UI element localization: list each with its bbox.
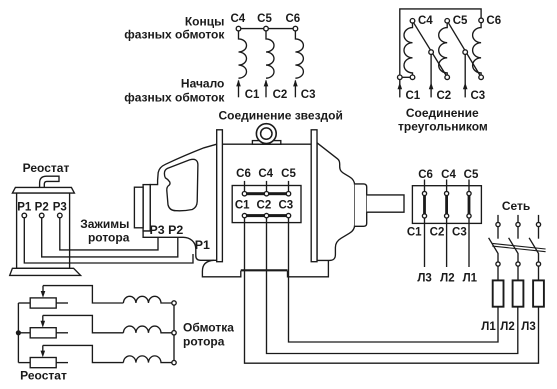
svg-text:фазных обмоток: фазных обмоток: [124, 28, 225, 42]
svg-text:С4: С4: [230, 13, 245, 25]
svg-text:С4: С4: [418, 15, 433, 27]
svg-text:С2: С2: [437, 90, 452, 102]
svg-text:С1: С1: [406, 90, 421, 102]
svg-text:Р1: Р1: [195, 238, 210, 252]
svg-text:С1: С1: [245, 89, 260, 101]
svg-text:Р2: Р2: [35, 202, 49, 214]
svg-text:С3: С3: [452, 227, 467, 239]
svg-text:С4: С4: [258, 168, 273, 180]
svg-text:С1: С1: [407, 227, 422, 239]
svg-text:Реостат: Реостат: [23, 161, 70, 175]
svg-text:Начало: Начало: [181, 77, 224, 91]
svg-text:С5: С5: [453, 15, 468, 27]
svg-text:С5: С5: [464, 169, 479, 181]
svg-text:С3: С3: [278, 200, 293, 212]
svg-text:С6: С6: [285, 13, 300, 25]
svg-text:С2: С2: [273, 89, 288, 101]
svg-text:Л2: Л2: [500, 321, 514, 333]
svg-text:Л1: Л1: [481, 321, 496, 333]
svg-text:Обмотка: Обмотка: [183, 321, 234, 335]
svg-text:Зажимы: Зажимы: [80, 217, 129, 231]
svg-text:Р1: Р1: [17, 202, 32, 214]
svg-text:С1: С1: [235, 200, 250, 212]
svg-text:С3: С3: [471, 90, 486, 102]
svg-text:С6: С6: [236, 168, 251, 180]
svg-text:Л2: Л2: [440, 272, 454, 284]
svg-text:С3: С3: [301, 89, 316, 101]
svg-text:ротора: ротора: [183, 335, 225, 349]
svg-text:Л3: Л3: [521, 321, 535, 333]
svg-text:Л3: Л3: [417, 272, 431, 284]
svg-text:С2: С2: [430, 227, 445, 239]
svg-text:С2: С2: [257, 200, 272, 212]
svg-text:Соединение: Соединение: [406, 106, 479, 120]
svg-text:С4: С4: [441, 169, 456, 181]
svg-text:Концы: Концы: [185, 14, 225, 28]
svg-text:С6: С6: [418, 169, 433, 181]
svg-text:фазных обмоток: фазных обмоток: [124, 91, 225, 105]
svg-text:треугольником: треугольником: [398, 120, 488, 134]
svg-text:Л1: Л1: [463, 272, 478, 284]
svg-text:ротора: ротора: [88, 231, 130, 245]
svg-text:Р3 Р2: Р3 Р2: [150, 223, 184, 237]
svg-text:С5: С5: [257, 13, 272, 25]
svg-text:Реостат: Реостат: [20, 369, 67, 383]
svg-text:С5: С5: [281, 168, 296, 180]
svg-text:Р3: Р3: [53, 202, 67, 214]
svg-text:Сеть: Сеть: [502, 199, 530, 213]
svg-text:С6: С6: [486, 15, 501, 27]
svg-text:Соединение звездой: Соединение звездой: [219, 108, 343, 122]
